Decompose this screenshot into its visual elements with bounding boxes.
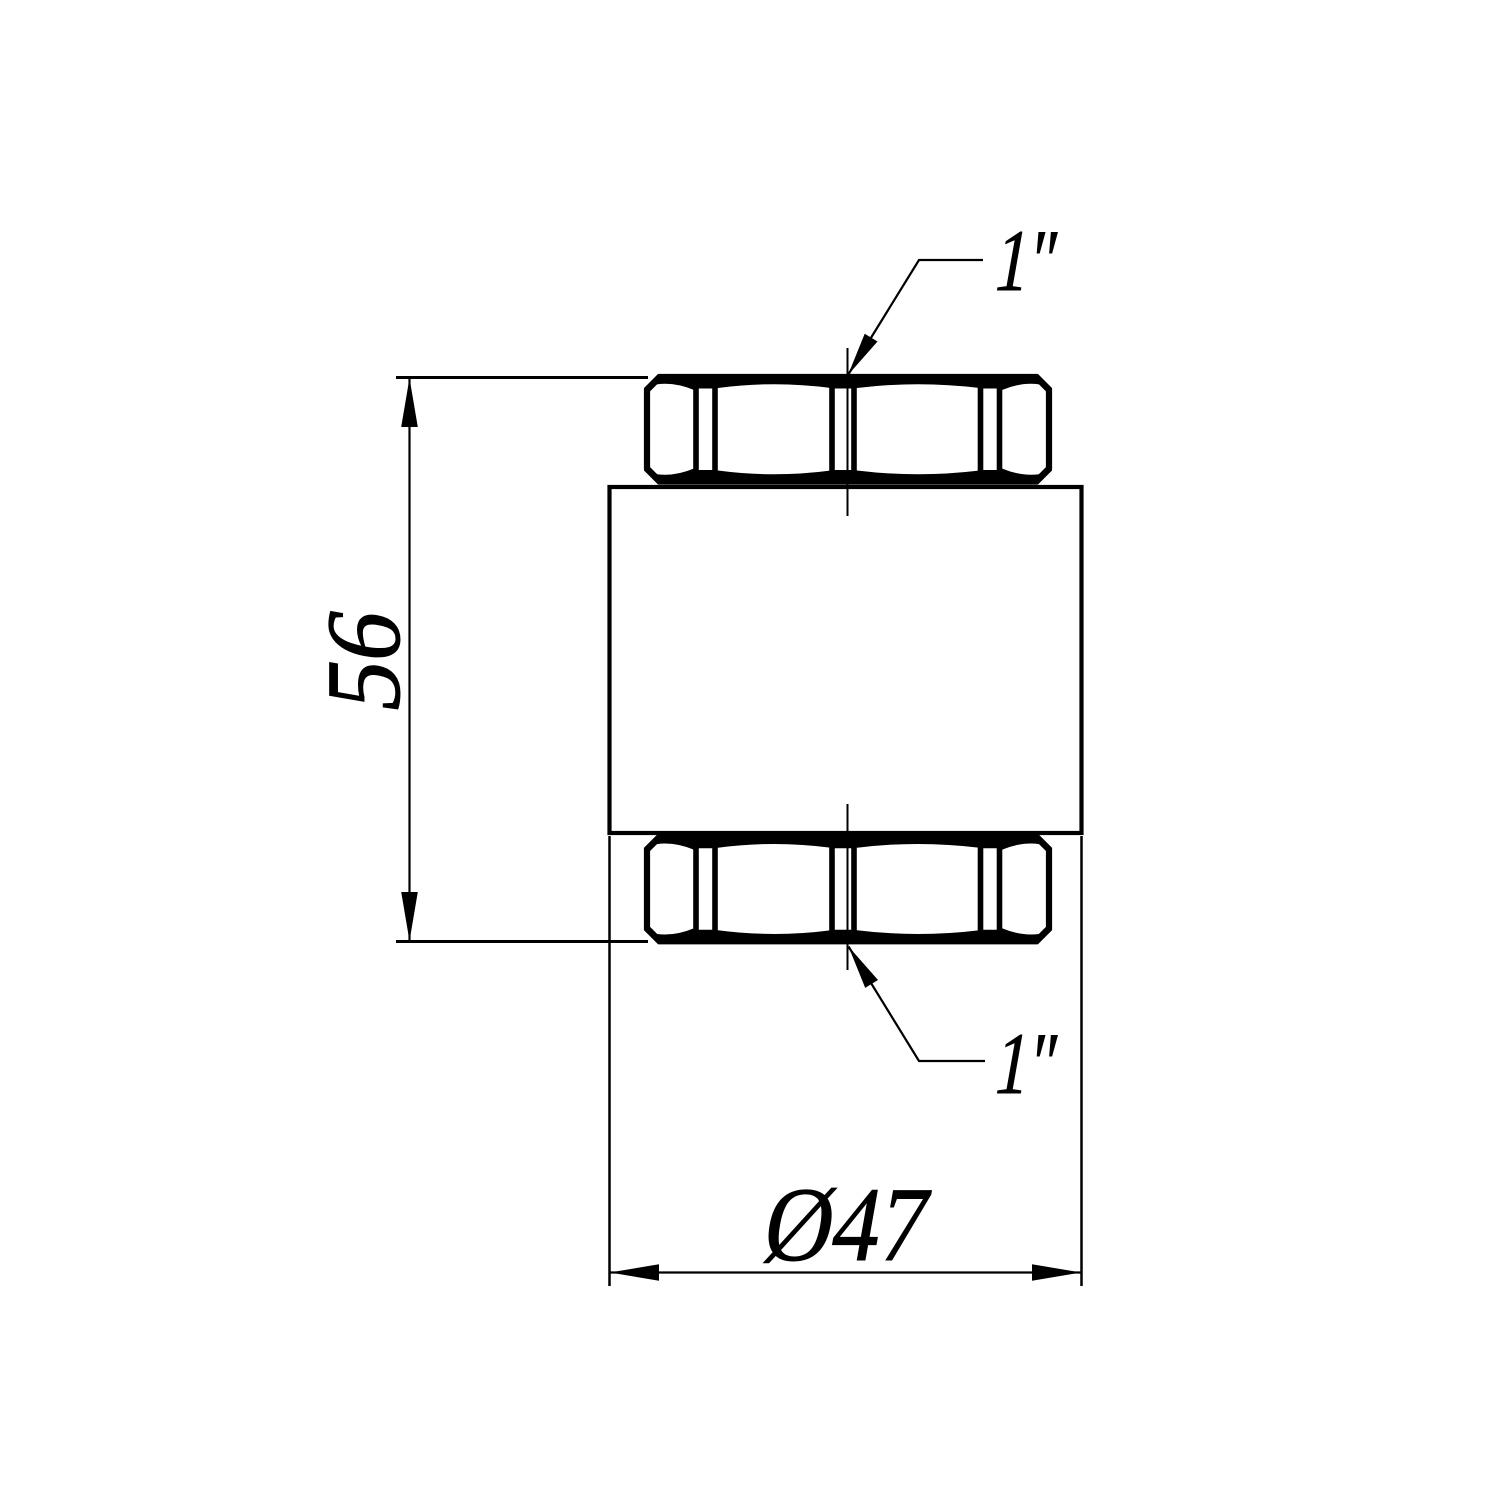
dimension 56 dimension line xyxy=(408,378,410,942)
body rectangle xyxy=(610,487,1082,833)
dimension D47 arrow left xyxy=(610,1264,659,1281)
top nut facet line 5 xyxy=(978,380,984,480)
bottom nut outline xyxy=(647,837,1049,942)
svg-text:Ø47: Ø47 xyxy=(756,1167,939,1284)
dimension D47 arrow right xyxy=(1032,1264,1081,1281)
dimension 56 arrow down xyxy=(401,892,418,941)
dimension 56 top extension line xyxy=(396,376,648,379)
top nut facet line 2 xyxy=(712,380,718,480)
dimension D47 dimension line xyxy=(610,1271,1082,1273)
leader bottom arrow xyxy=(849,947,879,988)
dimension 56 bottom extension line xyxy=(396,940,648,943)
bottom nut facet line 5 xyxy=(978,839,984,939)
bottom nut chamfer band upper xyxy=(644,834,1052,850)
bottom nut facet line 6 xyxy=(997,839,1003,939)
bottom nut facet line 2 xyxy=(712,839,718,939)
leader top arrow xyxy=(848,334,878,375)
dimension D47 right extension line xyxy=(1080,836,1083,1286)
dimension D47 left extension line xyxy=(608,836,611,1286)
top nut facet line 6 xyxy=(997,380,1003,480)
top nut facet line 4 xyxy=(851,380,857,480)
bottom nut facet line 3 xyxy=(829,839,835,939)
top nut centerline xyxy=(847,348,849,516)
bottom nut chamfer band lower xyxy=(644,928,1052,944)
bottom nut centerline xyxy=(847,804,849,970)
dimension 56 arrow up xyxy=(401,378,418,427)
top nut outline xyxy=(647,377,1049,482)
bottom nut facet line 4 xyxy=(851,839,857,939)
svg-text:56: 56 xyxy=(306,600,423,720)
top nut facet line 3 xyxy=(829,380,835,480)
top nut chamfer band upper xyxy=(644,374,1052,390)
top nut facet line 1 xyxy=(693,380,699,480)
bottom nut facet line 1 xyxy=(693,839,699,939)
top nut chamfer band lower xyxy=(644,469,1052,485)
leader bottom line xyxy=(849,947,986,1062)
leader top line xyxy=(848,260,983,375)
